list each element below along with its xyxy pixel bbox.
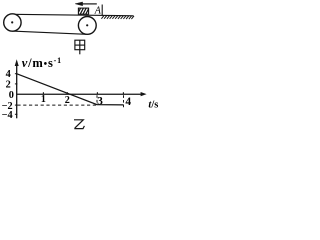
right pulley [78,17,96,35]
svg-text:0: 0 [9,90,14,101]
x tick 1 [42,92,44,94]
label jia (figure 1) [75,40,85,54]
v-t graph line [17,74,124,105]
wall vertical line [101,5,103,16]
x tick 3 [96,92,98,94]
svg-text:2: 2 [6,79,11,90]
dashed vertical line t=3 [96,95,98,104]
v axis line [16,63,18,118]
x tick 2 [66,92,68,94]
t axis arrowhead [141,92,147,96]
svg-text:A: A [94,6,102,17]
block A (hatched) [77,8,92,15]
y tick -4 [15,113,18,115]
y tick -2 [15,104,18,106]
svg-text:t/s: t/s [148,100,158,111]
dashed vertical line t=4 [123,95,125,107]
y tick 2 [15,83,18,85]
svg-text:−4: −4 [2,110,13,121]
left pulley axle dot [11,21,13,23]
belt bottom line [12,31,87,34]
dashed horizontal line v=-2 [17,104,96,106]
svg-text:1: 1 [41,94,46,105]
label yi (figure 2) [74,120,84,129]
t axis line [17,93,141,95]
velocity arrow tail [82,3,97,5]
right pulley axle dot [86,24,88,26]
left pulley [4,14,21,31]
belt top line / ground line [12,14,134,16]
svg-text:2: 2 [65,95,70,106]
ground hatching [101,16,134,19]
v axis arrowhead [15,59,19,66]
y tick 4 [15,73,18,75]
svg-text:3: 3 [97,95,103,107]
svg-text:4: 4 [125,96,131,108]
x tick 4 [122,92,124,94]
velocity arrowhead [75,2,83,6]
